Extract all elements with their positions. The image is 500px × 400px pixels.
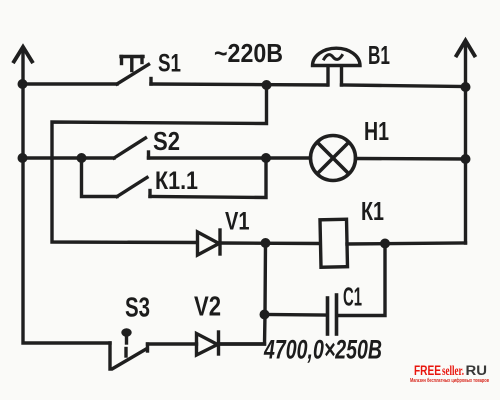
switch S2 xyxy=(114,138,149,158)
bell B1 xyxy=(313,48,361,85)
svg-text:К1.1: К1.1 xyxy=(155,167,198,195)
svg-text:S3: S3 xyxy=(125,292,150,323)
wire K1.1 to mid vertical xyxy=(150,158,266,198)
wire C1 left to mid vertical xyxy=(265,313,328,317)
relay contact K1.1 xyxy=(117,178,150,197)
svg-text:К1: К1 xyxy=(361,198,384,226)
node top junction to V1 branch xyxy=(262,80,272,90)
wire top branch bell to right bus xyxy=(342,85,466,87)
svg-text:С1: С1 xyxy=(343,284,362,312)
wire V2 to mid vertical xyxy=(219,342,265,345)
svg-text:4700,0×250В: 4700,0×250В xyxy=(263,335,382,365)
node top-left junction xyxy=(18,79,28,89)
watermark FREEseller.RU logo xyxy=(410,363,489,384)
wire right vertical bus xyxy=(464,87,467,243)
wire upper loop: top node down, left, down to V1 branch xyxy=(52,85,267,243)
svg-text:seller.: seller. xyxy=(442,363,464,378)
svg-text:S2: S2 xyxy=(153,126,180,156)
svg-text:Н1: Н1 xyxy=(364,116,389,146)
wire K1.1 branch drop xyxy=(82,158,118,197)
node S2/K1.1 split junction xyxy=(77,153,87,163)
node V1 branch junction xyxy=(261,238,271,248)
wire right drop to C1 xyxy=(338,244,385,316)
node mid junction at x266 xyxy=(261,153,271,163)
relay coil K1 xyxy=(320,219,347,267)
svg-text:V2: V2 xyxy=(194,291,221,322)
node right bus lamp junction xyxy=(461,154,471,164)
wire mid vertical V1-to-bottom xyxy=(220,243,266,344)
svg-text:FREE: FREE xyxy=(414,363,441,378)
wire top branch left segment xyxy=(23,82,117,85)
right supply arrow xyxy=(457,41,475,88)
wire lamp to right bus xyxy=(356,157,466,161)
svg-text:Магазин бесплатных цифровых то: Магазин бесплатных цифровых товаров xyxy=(410,377,489,384)
wire top branch S1 to bell xyxy=(151,84,327,85)
wire left vertical bus xyxy=(23,83,110,343)
left supply arrow xyxy=(14,47,32,84)
wire V1 to relay coil xyxy=(220,241,320,245)
svg-text:~220В: ~220В xyxy=(214,38,283,68)
wire S3 to V2 xyxy=(148,342,197,345)
node relay-right junction xyxy=(380,239,390,249)
wire relay to right bus xyxy=(347,243,466,244)
svg-text:RU: RU xyxy=(466,363,488,378)
diode V1 xyxy=(198,230,221,255)
node top-right junction xyxy=(461,82,471,92)
svg-text:V1: V1 xyxy=(225,208,250,236)
wire lamp branch from left bus xyxy=(23,156,114,159)
switch S3 (push-button) xyxy=(110,328,148,369)
diode V2 xyxy=(197,332,219,355)
node left bus lamp-branch junction xyxy=(18,153,28,163)
lamp H1 xyxy=(311,136,356,181)
wire S2 to lamp xyxy=(149,156,311,159)
switch S1 (push-button) xyxy=(117,57,151,85)
svg-text:S1: S1 xyxy=(158,50,181,78)
capacitor C1 xyxy=(328,295,337,334)
node C1 junction xyxy=(260,310,270,320)
svg-text:В1: В1 xyxy=(368,40,390,70)
